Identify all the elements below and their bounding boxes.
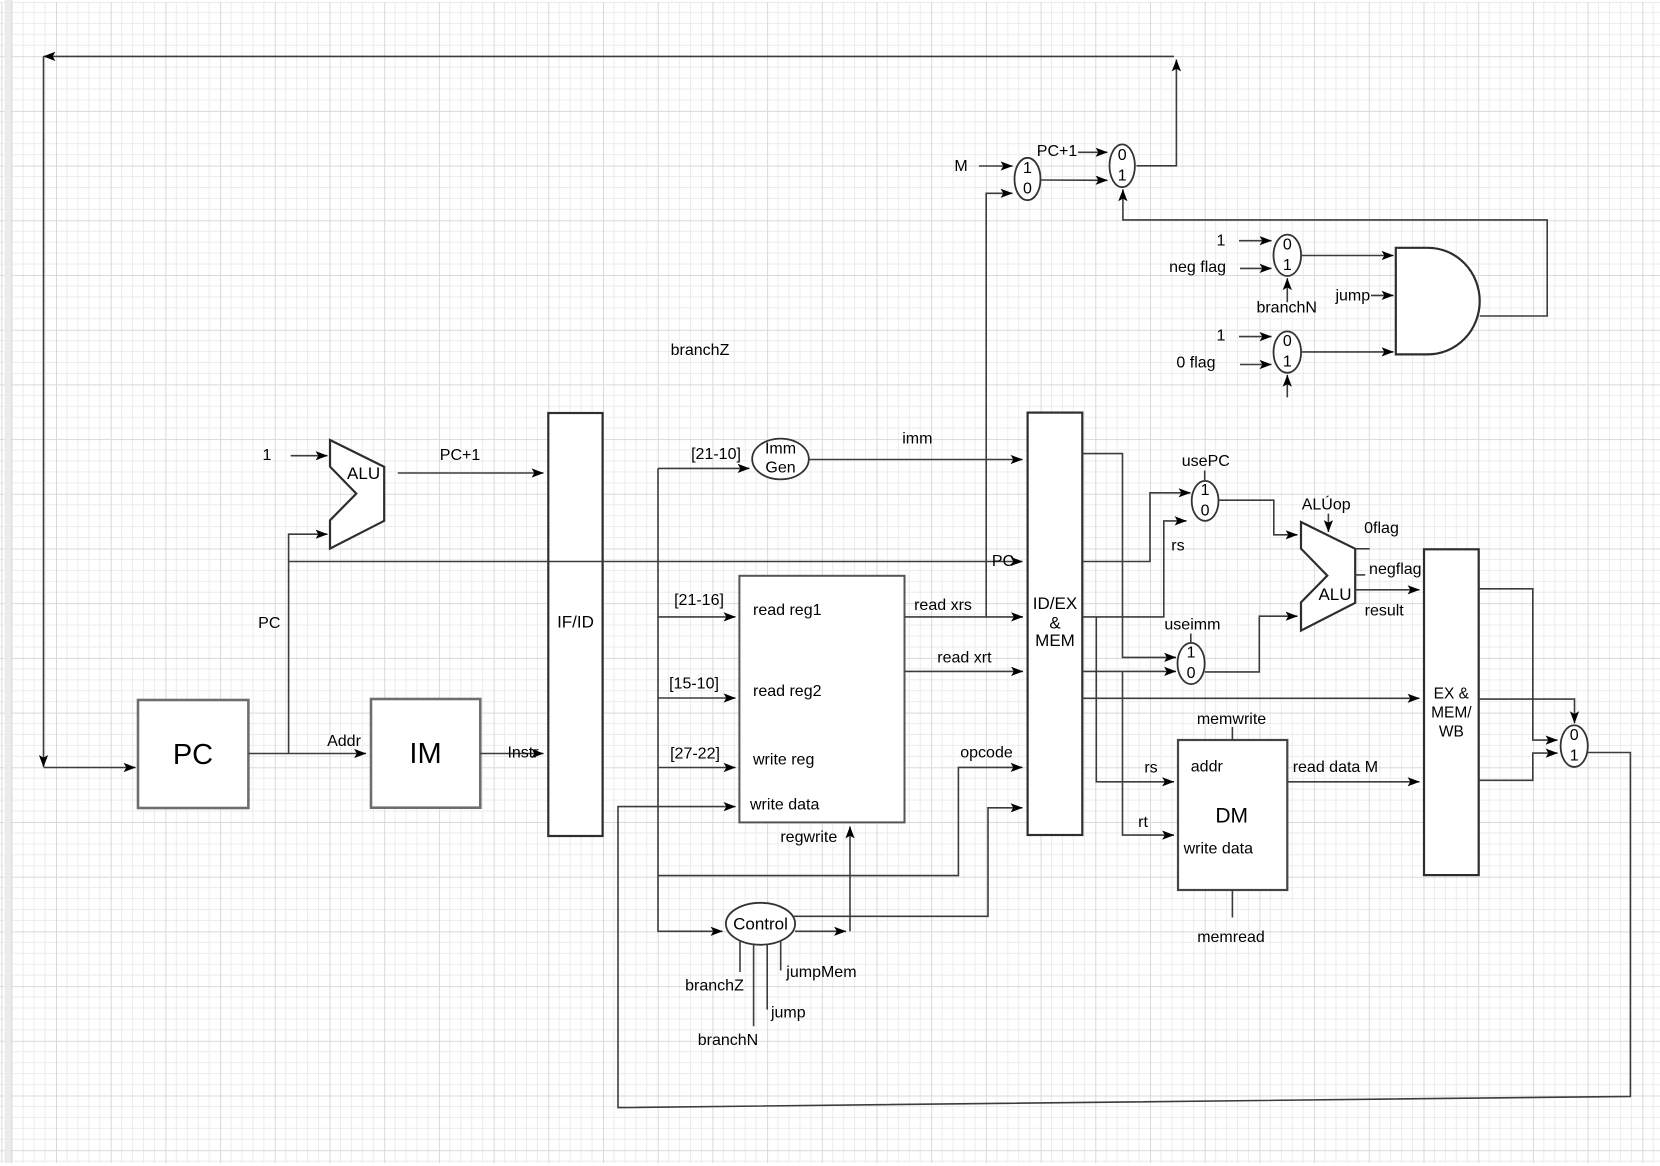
svg-text:write data: write data (749, 797, 819, 814)
svg-text:jump: jump (770, 1005, 806, 1022)
svg-text:write data: write data (1183, 841, 1253, 858)
svg-text:1: 1 (263, 447, 272, 464)
svg-text:[21-10]: [21-10] (691, 446, 741, 463)
svg-text:read reg2: read reg2 (753, 683, 822, 700)
svg-text:MEM: MEM (1035, 631, 1075, 650)
svg-text:PC+1: PC+1 (440, 447, 481, 464)
svg-text:write reg: write reg (752, 752, 814, 769)
svg-text:PC: PC (992, 553, 1014, 570)
svg-text:EX &: EX & (1434, 686, 1470, 703)
svg-text:1: 1 (1118, 167, 1127, 184)
svg-text:0: 0 (1283, 236, 1292, 253)
svg-text:Imm: Imm (765, 441, 796, 458)
svg-text:&: & (1049, 614, 1061, 633)
svg-text:WB: WB (1439, 724, 1464, 741)
svg-text:DM: DM (1215, 805, 1248, 828)
svg-text:branchN: branchN (698, 1032, 758, 1049)
svg-text:0: 0 (1570, 727, 1579, 744)
svg-text:rs: rs (1144, 760, 1157, 777)
svg-text:0: 0 (1283, 333, 1292, 350)
svg-text:PC: PC (258, 615, 280, 632)
svg-text:1: 1 (1570, 748, 1579, 765)
svg-text:usePC: usePC (1182, 453, 1230, 470)
svg-text:IM: IM (409, 738, 441, 770)
svg-text:0: 0 (1187, 665, 1196, 682)
svg-text:1: 1 (1187, 645, 1196, 662)
svg-text:1: 1 (1023, 160, 1032, 177)
svg-text:neg flag: neg flag (1169, 259, 1226, 276)
svg-text:0: 0 (1023, 181, 1032, 198)
svg-text:[27-22]: [27-22] (670, 746, 720, 763)
svg-text:read xrt: read xrt (937, 649, 992, 666)
svg-text:M: M (954, 158, 967, 175)
svg-text:1: 1 (1283, 257, 1292, 274)
svg-text:PC: PC (173, 739, 213, 771)
svg-text:1: 1 (1217, 327, 1226, 344)
svg-text:branchZ: branchZ (685, 978, 744, 995)
svg-text:[21-16]: [21-16] (674, 592, 724, 609)
svg-text:jump: jump (1334, 287, 1370, 304)
svg-text:addr: addr (1191, 758, 1224, 775)
svg-text:IF/ID: IF/ID (557, 613, 594, 632)
svg-text:1: 1 (1201, 482, 1210, 499)
svg-text:MEM/: MEM/ (1431, 705, 1472, 722)
svg-text:memread: memread (1197, 929, 1265, 946)
svg-text:result: result (1365, 603, 1405, 620)
svg-text:read reg1: read reg1 (753, 602, 822, 619)
svg-text:[15-10]: [15-10] (669, 676, 719, 693)
svg-text:negflag: negflag (1369, 561, 1422, 578)
svg-text:Control: Control (733, 915, 788, 934)
svg-text:PC+1: PC+1 (1037, 143, 1078, 160)
svg-text:branchZ: branchZ (671, 342, 730, 359)
svg-text:read xrs: read xrs (914, 597, 972, 614)
svg-text:rs: rs (1171, 538, 1184, 555)
svg-text:opcode: opcode (960, 745, 1013, 762)
svg-text:ALU: ALU (347, 464, 380, 483)
svg-text:1: 1 (1283, 354, 1292, 371)
svg-text:1: 1 (1217, 233, 1226, 250)
svg-text:read data M: read data M (1293, 759, 1378, 776)
svg-text:imm: imm (902, 431, 932, 448)
svg-text:Gen: Gen (765, 459, 795, 476)
svg-text:ALU: ALU (1318, 585, 1351, 604)
svg-text:Addr: Addr (327, 733, 361, 750)
svg-text:regwrite: regwrite (780, 829, 837, 846)
svg-text:useimm: useimm (1164, 617, 1220, 634)
svg-text:0 flag: 0 flag (1176, 355, 1215, 372)
svg-text:memwrite: memwrite (1197, 711, 1266, 728)
svg-text:ID/EX: ID/EX (1033, 594, 1077, 613)
svg-text:rt: rt (1138, 814, 1148, 831)
svg-text:Instr: Instr (507, 744, 539, 761)
svg-text:0: 0 (1201, 502, 1210, 519)
svg-text:branchN: branchN (1256, 300, 1316, 317)
svg-text:ALÚop: ALÚop (1302, 495, 1351, 514)
svg-text:0: 0 (1118, 147, 1127, 164)
svg-text:jumpMem: jumpMem (785, 964, 856, 981)
svg-text:0flag: 0flag (1364, 520, 1399, 537)
